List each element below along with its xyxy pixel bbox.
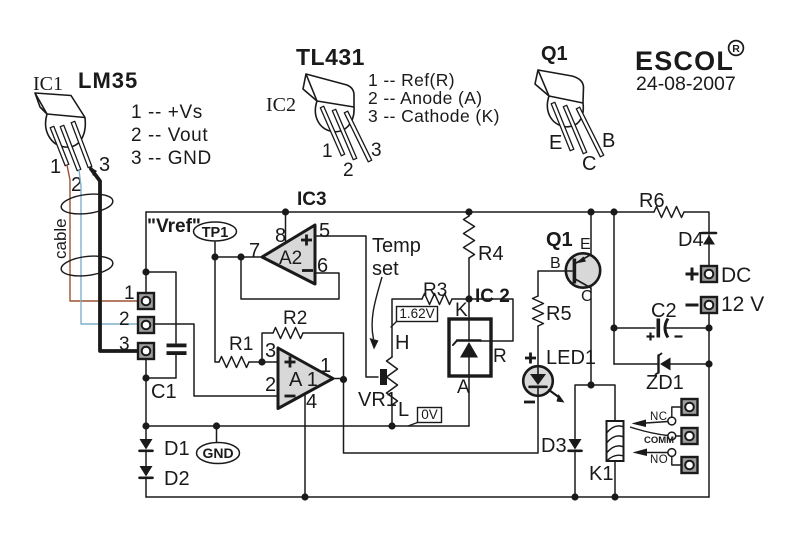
svg-text:B: B xyxy=(602,130,615,152)
wire Q1 emitter to +12 rail xyxy=(590,212,592,255)
sensor IC1 LM35 TO-92 body xyxy=(35,93,85,147)
junction bottom rail / K1 xyxy=(611,493,618,500)
svg-text:DC: DC xyxy=(721,264,751,287)
terminal input 3 xyxy=(138,343,154,359)
svg-text:R4: R4 xyxy=(478,243,504,265)
svg-text:A2: A2 xyxy=(279,248,302,269)
resistor R1 xyxy=(219,357,249,368)
svg-text:NC: NC xyxy=(650,411,668,423)
minus input mark (A2) xyxy=(302,269,313,272)
junction node K xyxy=(465,295,472,302)
junction C2 branch / C2 xyxy=(610,324,617,331)
wire C2 branch vertical xyxy=(613,212,615,364)
temp set pointer arrow xyxy=(370,277,383,350)
wire A2 pin6 feedback loop xyxy=(241,257,339,299)
wire R2 to A1 output xyxy=(303,333,344,380)
cable sheath loop lower xyxy=(60,253,114,278)
wire A1 output pin1 xyxy=(333,378,344,380)
diode D3 xyxy=(569,439,582,497)
label Temp set xyxy=(372,235,421,280)
resistor R4 wire top xyxy=(468,212,470,216)
wire terminal3 to ground path xyxy=(145,359,147,439)
junction A2 output / feedback xyxy=(237,253,244,260)
wire collector node to D3 xyxy=(575,385,591,439)
junction 0V rail / VR1 bottom xyxy=(388,422,395,429)
svg-text:1: 1 xyxy=(322,141,333,162)
diode D4 xyxy=(702,233,716,265)
wire top rail right end to D4 xyxy=(684,212,709,232)
diode D2 xyxy=(140,466,153,497)
terminal DC plus xyxy=(701,266,717,282)
svg-text:R6: R6 xyxy=(639,190,665,212)
svg-text:3 -- GND: 3 -- GND xyxy=(131,148,212,169)
junction R1 / R2 / pin3 xyxy=(258,358,265,365)
cable sheath loop upper xyxy=(60,191,114,216)
junction top rail / Q1 emitter xyxy=(587,208,594,215)
TL431 pinout list xyxy=(368,70,500,126)
svg-text:NO: NO xyxy=(650,454,668,466)
transistor Q1 symbol xyxy=(566,253,600,288)
potentiometer VR1 xyxy=(387,357,398,405)
terminal input 1 xyxy=(138,293,154,309)
label + (DC) xyxy=(686,268,699,281)
svg-text:cable: cable xyxy=(51,218,70,259)
svg-text:3: 3 xyxy=(265,340,276,362)
wire A2 output pin7 xyxy=(215,256,262,258)
wire cable lead pin2 (blue) to terminal 2 xyxy=(79,170,137,324)
test point TP1 xyxy=(194,222,237,257)
svg-text:24-08-2007: 24-08-2007 xyxy=(636,73,736,95)
wire node K into IC2 cathode xyxy=(468,299,470,340)
svg-text:LM35: LM35 xyxy=(78,68,138,93)
svg-text:3 -- Cathode (K): 3 -- Cathode (K) xyxy=(368,106,500,126)
junction Q1 collector / relay branch xyxy=(587,381,594,388)
svg-text:2: 2 xyxy=(343,160,354,181)
svg-text:3: 3 xyxy=(119,334,130,355)
svg-text:A 1: A 1 xyxy=(289,369,318,391)
svg-text:1: 1 xyxy=(50,156,61,178)
reference IC2 TL431 TO-92 body xyxy=(303,74,354,132)
svg-text:R3: R3 xyxy=(423,280,447,301)
op-amp A1 xyxy=(278,348,333,409)
svg-text:3: 3 xyxy=(371,140,382,161)
svg-text:VR1: VR1 xyxy=(358,389,397,411)
wire VR1 top to R3 xyxy=(392,299,422,357)
wire R1 to A1 pin3 xyxy=(249,361,278,363)
value label 0V xyxy=(408,407,442,426)
svg-text:2: 2 xyxy=(119,309,130,330)
wire bottom ground rail xyxy=(146,496,709,498)
relay contact NO xyxy=(633,449,682,466)
wire IC2 ref loop to node K xyxy=(469,299,513,341)
label - (DC) xyxy=(686,304,699,307)
sensor IC1 pin 3 leg xyxy=(71,121,92,167)
svg-text:4: 4 xyxy=(306,391,317,413)
svg-text:E: E xyxy=(549,132,562,154)
junction top rail / C2 branch xyxy=(610,208,617,215)
wire A1 output down to LED1 cathode xyxy=(344,380,539,454)
wire collector node to K1 coil xyxy=(591,385,615,421)
TL431 pin 1 leg xyxy=(320,106,344,156)
svg-text:1.62V: 1.62V xyxy=(399,306,434,321)
plus input mark (A2) xyxy=(301,235,312,246)
Q1 emitter leg xyxy=(551,102,574,150)
svg-text:R: R xyxy=(493,346,507,367)
wire A1 pin4 to ground rail xyxy=(304,393,306,497)
wire left rail top (+Vs) xyxy=(145,212,147,293)
svg-text:1: 1 xyxy=(124,283,135,304)
svg-text:L: L xyxy=(398,399,409,421)
op-amp A2 xyxy=(262,225,315,284)
resistor R4 xyxy=(464,216,475,258)
registered trademark symbol xyxy=(729,41,744,56)
minus input mark (A1) xyxy=(285,395,296,398)
svg-text:5: 5 xyxy=(319,220,330,242)
svg-text:ZD1: ZD1 xyxy=(646,372,684,394)
label - (C2) xyxy=(675,335,683,337)
resistor R3 xyxy=(422,294,452,305)
wire +12V top rail xyxy=(146,211,654,213)
wire K1 coil to ground rail xyxy=(614,461,616,497)
label - (LED1) xyxy=(524,401,535,404)
svg-text:3: 3 xyxy=(99,154,110,176)
wire Vref node down to R1 xyxy=(215,257,219,362)
junction C1 bottom / left wire xyxy=(142,374,149,381)
svg-text:C1: C1 xyxy=(151,381,177,403)
svg-text:GND: GND xyxy=(202,445,233,461)
wire 0V rail xyxy=(146,425,469,427)
plus input mark (A1) xyxy=(285,357,296,368)
junction 0V rail / left wire xyxy=(142,422,149,429)
svg-text:Temp: Temp xyxy=(372,235,421,257)
svg-text:D4: D4 xyxy=(678,229,704,251)
relay contact COMM lever xyxy=(630,427,681,440)
svg-text:R: R xyxy=(732,43,740,55)
TL431 pin 3 leg xyxy=(344,111,371,162)
svg-text:K1: K1 xyxy=(589,463,613,485)
svg-text:C: C xyxy=(582,153,596,175)
svg-text:1 -- Ref(R): 1 -- Ref(R) xyxy=(368,70,455,90)
svg-text:COMM: COMM xyxy=(644,435,674,446)
junction A2 output / TP1 xyxy=(211,253,218,260)
wire DC minus down right side xyxy=(708,313,710,497)
wire Q1 collector down xyxy=(590,288,592,385)
resistor R5 xyxy=(533,296,544,326)
svg-text:Q1: Q1 xyxy=(541,43,568,65)
ground GND symbol xyxy=(197,426,240,464)
svg-text:ESCOL: ESCOL xyxy=(635,46,734,76)
terminal DC minus xyxy=(701,297,717,313)
wire A2 pin8 to +12 rail xyxy=(285,212,287,243)
svg-text:TP1: TP1 xyxy=(202,225,229,241)
wire R2 branch xyxy=(262,333,273,362)
svg-text:IC3: IC3 xyxy=(297,189,327,210)
wire IC2 anode to 0V rail xyxy=(468,358,470,427)
svg-text:A: A xyxy=(457,377,470,398)
wire cable lead pin3 (black GND) to terminal 3 xyxy=(91,169,137,351)
TL431 pin 2 leg xyxy=(332,109,356,159)
sensor IC1 pin 1 leg xyxy=(50,126,69,165)
svg-text:"Vref": "Vref" xyxy=(147,216,201,237)
wire R5 to LED1 anode xyxy=(537,326,539,367)
capacitor C2 electrolytic xyxy=(614,319,709,338)
svg-text:LED1: LED1 xyxy=(546,347,596,369)
sensor IC1 pin 2 leg xyxy=(60,125,81,170)
label + (C2) xyxy=(647,333,655,341)
wire Q1 base to R5 xyxy=(538,271,572,296)
svg-text:2: 2 xyxy=(265,374,276,396)
svg-text:7: 7 xyxy=(249,240,260,262)
junction bottom rail / A1 pin4 xyxy=(301,493,308,500)
LM35 pinout list xyxy=(131,102,212,169)
svg-text:R2: R2 xyxy=(283,308,307,329)
wire cable lead pin1 (brown) to terminal 1 xyxy=(67,165,137,301)
svg-text:2 -- Anode (A): 2 -- Anode (A) xyxy=(368,88,483,108)
value label 1.62V xyxy=(391,306,438,327)
terminal relay COMM xyxy=(682,428,698,444)
IC2 TL431 symbol xyxy=(453,341,481,358)
svg-text:B: B xyxy=(550,255,561,272)
label + (LED1) xyxy=(525,353,536,364)
svg-text:H: H xyxy=(395,332,409,354)
junction right side / ZD1 xyxy=(705,360,712,367)
svg-text:D2: D2 xyxy=(164,468,190,490)
capacitor C1 xyxy=(146,272,187,378)
wire R3 to node K xyxy=(452,298,469,300)
svg-text:1 -- +Vs: 1 -- +Vs xyxy=(131,102,203,123)
Q1 collector leg xyxy=(563,105,586,153)
diode D1 xyxy=(140,439,153,466)
shunt reference IC2 box xyxy=(449,319,491,376)
svg-text:TL431: TL431 xyxy=(296,44,365,70)
svg-text:IC 2: IC 2 xyxy=(475,286,510,307)
relay contact NC xyxy=(632,407,682,427)
svg-text:R5: R5 xyxy=(546,303,572,325)
zener diode ZD1 xyxy=(614,354,709,375)
junction A1 output xyxy=(340,376,347,383)
resistor R2 xyxy=(273,328,303,339)
junction bottom rail / D3 xyxy=(571,493,578,500)
svg-text:D3: D3 xyxy=(541,435,567,457)
Q1 base leg xyxy=(576,107,603,157)
svg-text:R1: R1 xyxy=(229,334,253,355)
svg-text:2 -- Vout: 2 -- Vout xyxy=(131,125,208,146)
junction top rail / R4 xyxy=(465,208,472,215)
svg-text:C2: C2 xyxy=(651,300,677,322)
svg-text:set: set xyxy=(372,258,399,280)
terminal relay NO xyxy=(682,457,698,473)
junction top rail / A2 pin8 xyxy=(282,208,289,215)
svg-text:E: E xyxy=(580,236,591,253)
svg-text:0V: 0V xyxy=(421,407,438,422)
terminal relay NC xyxy=(682,399,698,415)
wire R4 bottom to node K xyxy=(468,258,470,299)
terminal input 2 xyxy=(138,317,154,333)
resistor R6 xyxy=(654,207,684,218)
svg-text:IC2: IC2 xyxy=(266,94,296,116)
svg-text:Q1: Q1 xyxy=(546,229,573,251)
wire A1 pin2 to terminal 2 xyxy=(154,324,278,396)
LED LED1 xyxy=(523,366,564,402)
svg-text:1: 1 xyxy=(320,355,331,377)
svg-text:12 V: 12 V xyxy=(721,293,764,316)
wire A2 pin5 to VR1 wiper xyxy=(315,236,378,377)
relay coil K1 xyxy=(607,421,624,461)
svg-text:IC1: IC1 xyxy=(33,73,63,95)
svg-text:D1: D1 xyxy=(164,438,190,460)
junction left rail / C1 top branch xyxy=(142,268,149,275)
junction 0V rail / GND stub xyxy=(213,422,220,429)
VR1 wiper xyxy=(380,369,387,385)
junction right side / C2 xyxy=(705,324,712,331)
wire VR1 bottom to 0V rail xyxy=(391,405,393,426)
transistor Q1 TO-92 body xyxy=(535,70,584,127)
